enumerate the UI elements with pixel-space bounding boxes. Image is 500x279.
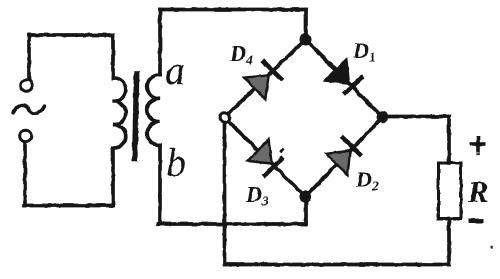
svg-text:D1: D1	[352, 38, 376, 66]
svg-text:a: a	[165, 48, 185, 93]
svg-text:D4: D4	[229, 41, 253, 69]
svg-text:b: b	[166, 140, 186, 185]
svg-text:D3: D3	[245, 182, 269, 210]
svg-text:D2: D2	[355, 167, 379, 195]
svg-text:R: R	[467, 174, 489, 209]
